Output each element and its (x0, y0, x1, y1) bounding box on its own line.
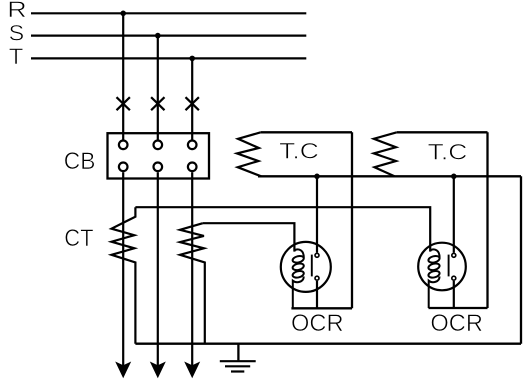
trip coil T.C1 box top edge (261, 131, 352, 133)
junction dot T tap (189, 56, 195, 62)
OCR1 contact blade (311, 255, 313, 277)
wire phase R bus (31, 12, 306, 14)
wire phase T bus (31, 57, 306, 59)
wire OCR2 bottom (429, 307, 488, 309)
svg-text:CT: CT (64, 225, 93, 252)
OCR1 contact bottom terminal (315, 276, 319, 280)
arrow load R (115, 362, 131, 379)
wire R phase drop to CB (122, 13, 124, 140)
svg-text:T: T (9, 44, 24, 69)
CB terminal circle R bottom (119, 163, 128, 172)
junction dot R tap (120, 11, 126, 17)
svg-text:OCR: OCR (430, 310, 483, 337)
CB terminal circle S top (154, 141, 163, 150)
relay OCR1 circle (281, 242, 331, 292)
trip coil T.C2 box top edge (397, 131, 488, 133)
wire T phase below CB (191, 172, 193, 374)
wire ground bus (135, 343, 521, 345)
svg-text:R: R (7, 0, 27, 22)
OCR1 contact top terminal (315, 253, 319, 257)
OCR1 coil (292, 249, 305, 308)
current transformer CT1 zigzag on phase R (112, 207, 136, 344)
arrow load T (184, 362, 200, 379)
circuit breaker CB box (108, 133, 210, 178)
OCR2 contact bottom terminal (452, 276, 456, 280)
wire phase S bus (31, 34, 306, 36)
OCR2 contact blade (448, 255, 450, 277)
trip coil T.C1 box right edge down to OCR1 (351, 132, 353, 308)
wire far right drop to ground bus (520, 176, 522, 343)
svg-text:T.C: T.C (428, 139, 468, 164)
junction dot S tap (155, 33, 161, 39)
CB terminal circle S bottom (154, 163, 163, 172)
OCR2 coil (428, 249, 441, 308)
wire R phase below CB (122, 172, 124, 374)
svg-text:T.C: T.C (279, 139, 319, 164)
wire T phase drop to CB (191, 58, 193, 139)
trip coil T.C2 box right edge down to OCR2 (486, 132, 488, 308)
current transformer CT2 zigzag on phase T (180, 223, 205, 344)
wire OCR1 contact to bottom (316, 281, 318, 308)
wire OCR2 contact to bottom (453, 281, 455, 308)
CB terminal circle R top (119, 141, 128, 150)
svg-text:OCR: OCR (291, 310, 344, 337)
wire CT2 secondary top rail to OCR1 (203, 223, 295, 251)
fuse X mark phase S (151, 97, 164, 110)
wire S phase drop to CB (157, 36, 159, 140)
CB terminal circle T top (188, 141, 197, 150)
OCR2 contact top terminal (452, 253, 456, 257)
wire OCR1 bottom (291, 307, 352, 309)
svg-text:CB: CB (64, 148, 96, 175)
OCR2 contact wire from T.C rail (453, 176, 455, 252)
fuse X mark phase T (186, 97, 199, 110)
fuse X mark phase R (117, 97, 130, 110)
trip coil T.C2 zigzag (374, 132, 397, 176)
wire T.C bottom rail (258, 175, 521, 177)
svg-text:S: S (9, 20, 25, 45)
relay OCR2 circle (418, 243, 466, 291)
arrow load S (150, 362, 166, 379)
ground symbol (220, 344, 256, 372)
junction dot T.C2 to OCR2 contact (451, 174, 457, 180)
OCR1 contact wire from T.C rail (316, 176, 318, 252)
CB terminal circle T bottom (188, 163, 197, 172)
wire S phase below CB (157, 172, 159, 374)
wire CT1 secondary top rail to OCR2 (135, 207, 430, 251)
junction dot T.C1 to OCR1 contact (314, 174, 320, 180)
trip coil T.C1 zigzag (237, 132, 261, 176)
